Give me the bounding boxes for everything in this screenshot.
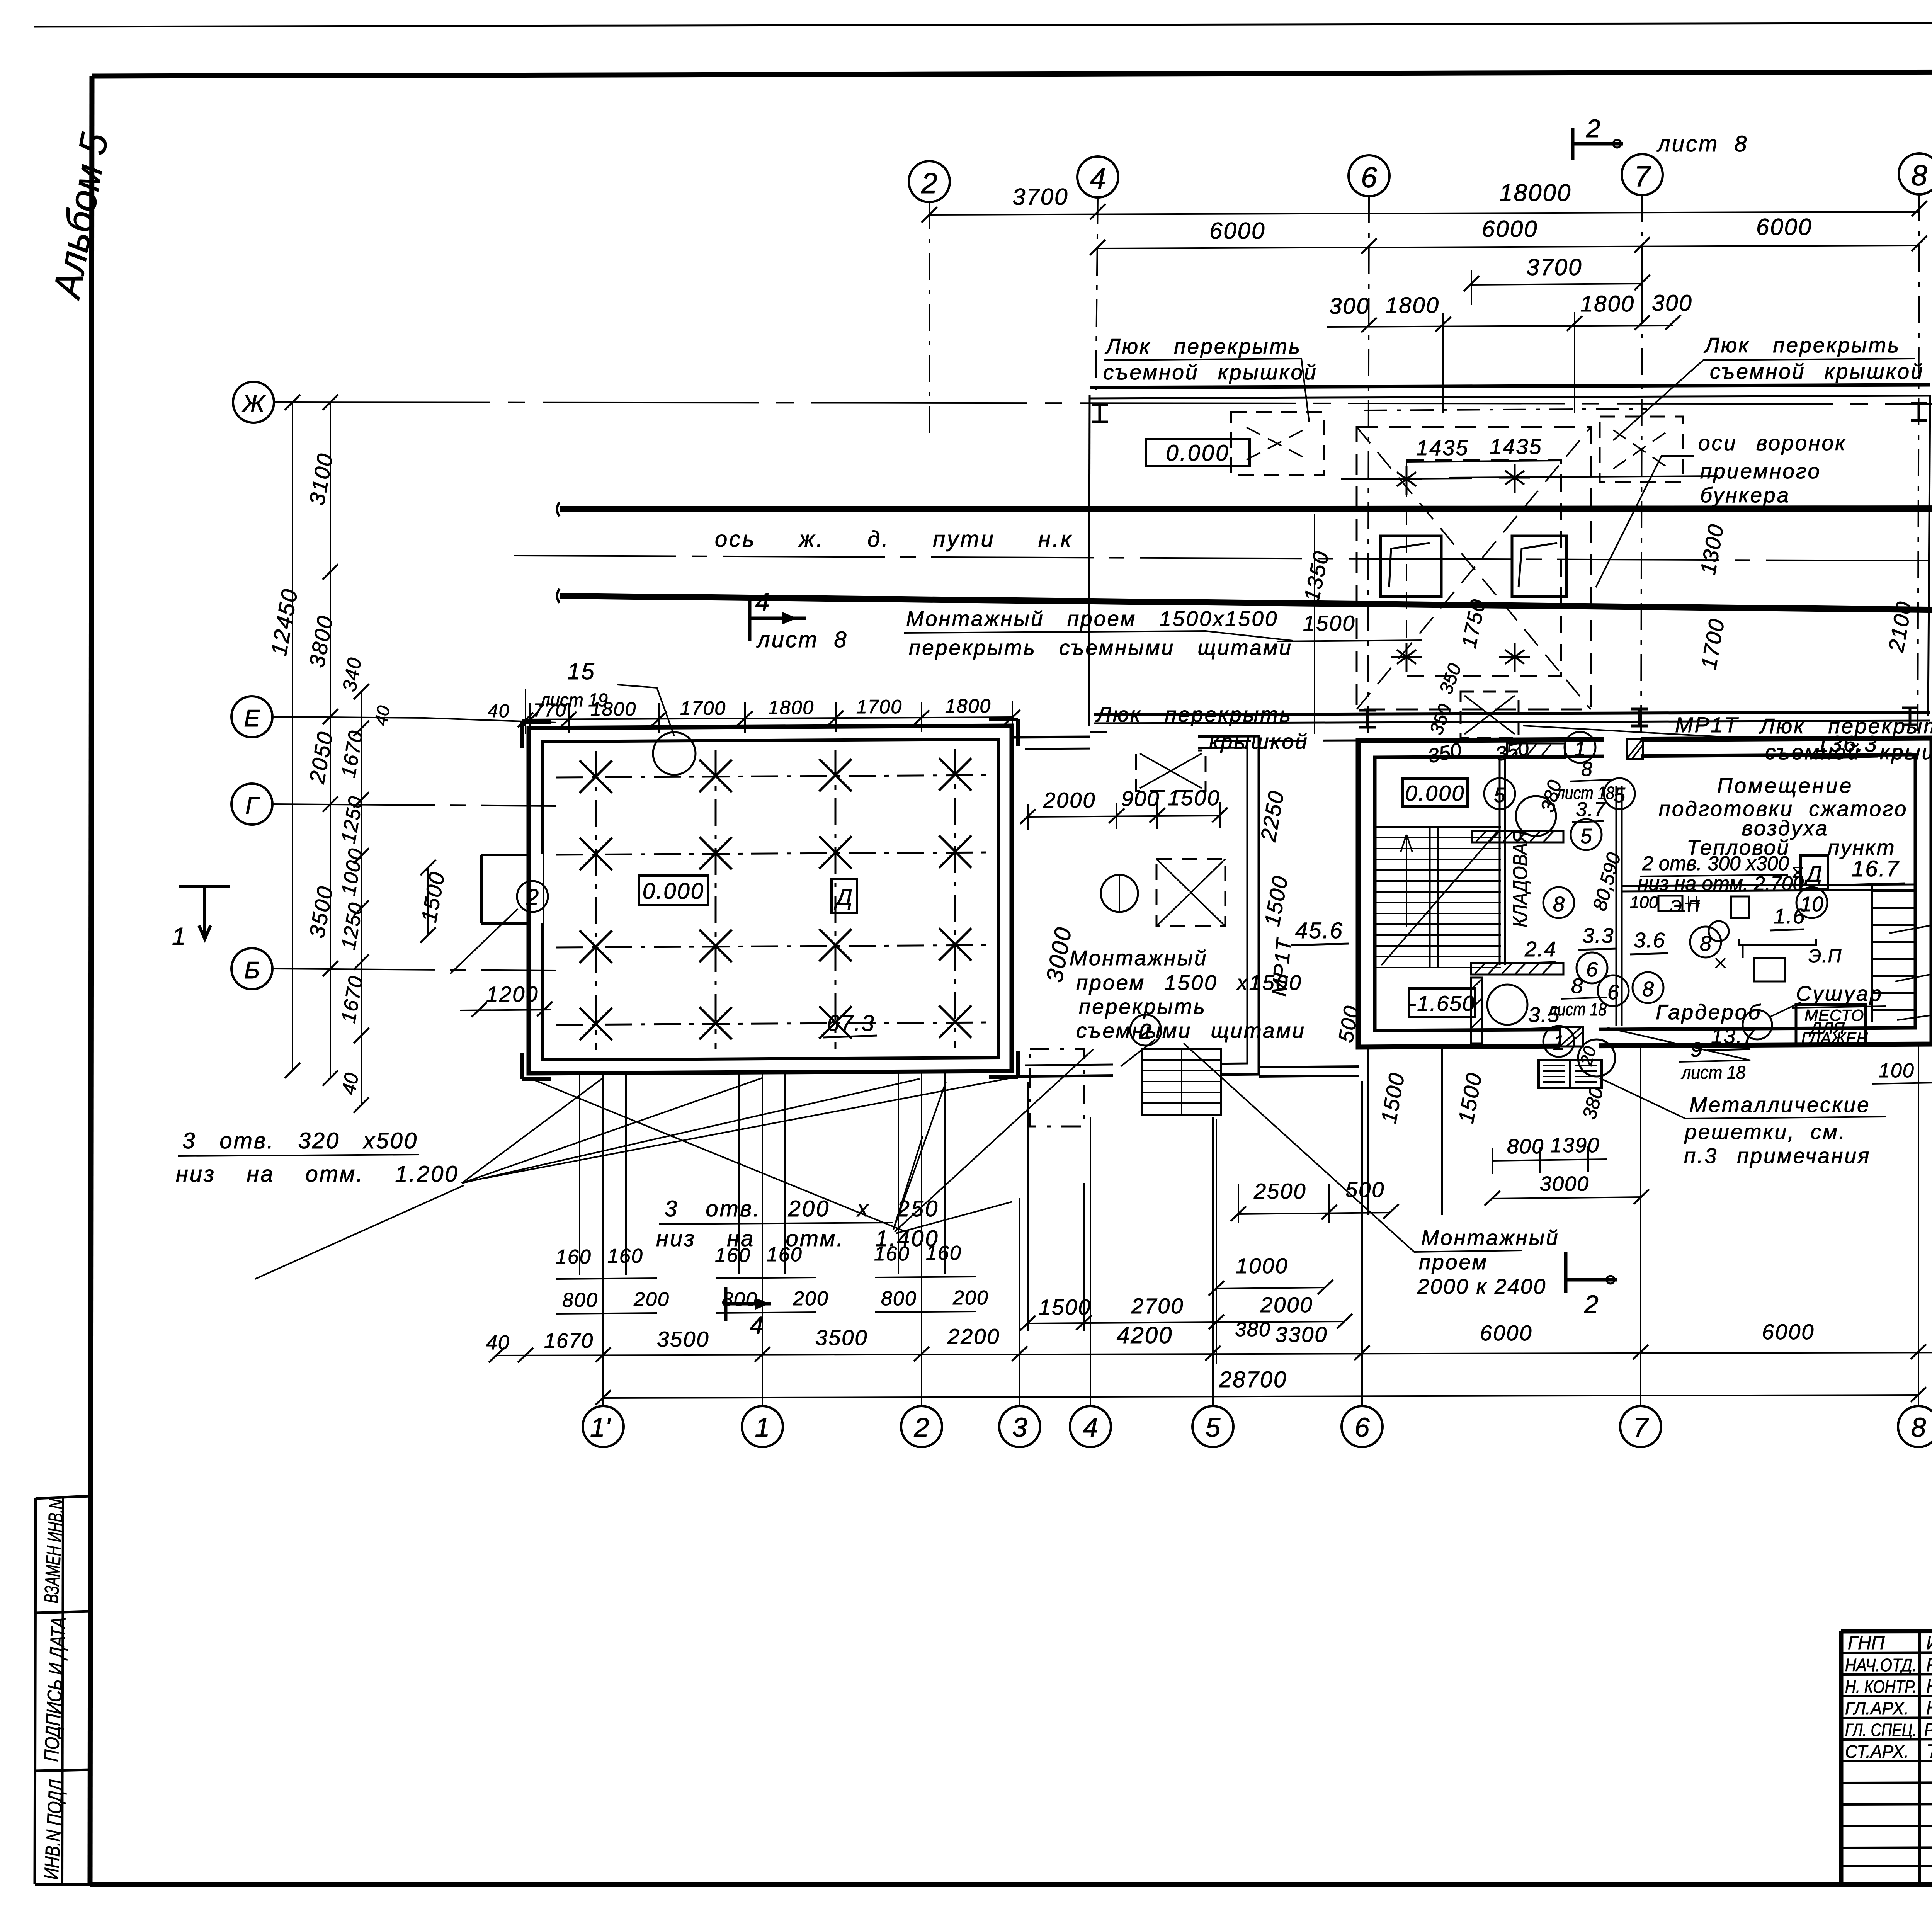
svg-text:2: 2 xyxy=(1584,1290,1599,1318)
I-beam south left xyxy=(1090,732,1107,749)
svg-text:низ на отм. 1.200: низ на отм. 1.200 xyxy=(176,1162,459,1187)
svg-text:Люк перекрыть: Люк перекрыть xyxy=(1759,714,1932,738)
svg-text:Монтажный проем 1500х1500: Монтажный проем 1500х1500 xyxy=(906,607,1279,631)
svg-text:6: 6 xyxy=(1607,981,1619,1004)
hall inner wall line xyxy=(543,739,998,1060)
svg-text:1435: 1435 xyxy=(1416,435,1469,460)
top dim row of hall xyxy=(522,717,1012,719)
gallery right post xyxy=(1928,395,1930,716)
svg-text:8: 8 xyxy=(1911,159,1927,192)
grid bubble 8 top xyxy=(1899,153,1932,194)
partition horizontal pom-garderob xyxy=(1622,884,1915,891)
svg-text:2000: 2000 xyxy=(1260,1293,1313,1317)
exterior stair xyxy=(1142,1049,1221,1115)
svg-text:6: 6 xyxy=(1586,958,1598,981)
svg-text:2 отв. 300 х300: 2 отв. 300 х300 xyxy=(1642,852,1789,875)
svg-text:770: 770 xyxy=(533,700,566,721)
svg-text:1000: 1000 xyxy=(1236,1253,1289,1278)
svg-text:160: 160 xyxy=(607,1245,643,1267)
svg-text:1: 1 xyxy=(172,922,186,950)
section mark 4 bottom xyxy=(726,1287,771,1321)
svg-text:6: 6 xyxy=(1355,1412,1370,1442)
funnel corner arrows xyxy=(580,758,971,1040)
svg-text:1: 1 xyxy=(755,1412,770,1442)
door swing circles xyxy=(1516,796,1556,836)
svg-text:СТ.АРХ.: СТ.АРХ. xyxy=(1845,1742,1909,1762)
bottom wall door gap xyxy=(1560,1025,1599,1049)
funnel mark top right xyxy=(1499,464,1530,493)
svg-text:300: 300 xyxy=(1329,294,1370,319)
svg-text:3 отв. 320 х500: 3 отв. 320 х500 xyxy=(182,1128,418,1153)
dim 2000 900 1500 xyxy=(1028,802,1221,830)
midroom luk dashed square xyxy=(1136,750,1206,791)
svg-text:ГНП: ГНП xyxy=(1848,1633,1885,1653)
svg-text:ГЛ. СПЕЦ.: ГЛ. СПЕЦ. xyxy=(1845,1720,1917,1740)
axis line 8 down xyxy=(1918,194,1919,738)
gallery south edge double line xyxy=(1094,712,1930,715)
svg-text:800: 800 xyxy=(562,1289,598,1311)
main bottom dim chain xyxy=(497,1352,1932,1355)
svg-text:-1.650: -1.650 xyxy=(1409,991,1475,1015)
svg-text:5: 5 xyxy=(1206,1412,1221,1442)
passage connector lines xyxy=(1259,1066,1359,1077)
luk dashed square right xyxy=(1600,417,1683,482)
left dim vertical chain xyxy=(330,402,331,1078)
svg-text:1670: 1670 xyxy=(544,1329,594,1352)
svg-text:4: 4 xyxy=(1083,1412,1098,1442)
svg-text:7: 7 xyxy=(1633,1412,1650,1442)
I-beam south right xyxy=(1902,708,1918,725)
dashed pad left of stair xyxy=(1030,1049,1084,1126)
svg-text:2: 2 xyxy=(1586,114,1600,143)
svg-text:28700: 28700 xyxy=(1219,1367,1287,1392)
svg-text:съемными щитами: съемными щитами xyxy=(1076,1019,1306,1043)
track axis dash line xyxy=(514,556,1932,561)
I-beam south mid1 xyxy=(1359,710,1376,727)
big cross diagonals under hall xyxy=(483,1078,1010,1233)
svg-text:Люк перекрыть: Люк перекрыть xyxy=(1105,334,1301,358)
mark D box right xyxy=(1801,855,1828,889)
funnel mark bottom right xyxy=(1499,643,1530,672)
svg-text:МР1Т: МР1Т xyxy=(1675,713,1739,737)
svg-text:Э.П: Э.П xyxy=(1808,946,1842,966)
grille symbol xyxy=(1539,1060,1602,1088)
svg-text:Г: Г xyxy=(245,793,260,819)
top wall door gap xyxy=(1604,735,1641,760)
svg-text:лист 8: лист 8 xyxy=(756,627,848,652)
svg-text:4: 4 xyxy=(755,587,770,616)
svg-text:Б: Б xyxy=(244,957,260,984)
svg-text:1390: 1390 xyxy=(1550,1134,1600,1157)
svg-text:2700: 2700 xyxy=(1131,1294,1184,1318)
svg-text:300: 300 xyxy=(1652,291,1693,316)
signature table column lines xyxy=(1918,1631,1921,1884)
mesto dlya glazhen box xyxy=(1796,1005,1866,1045)
svg-text:Люк перекрыть: Люк перекрыть xyxy=(1704,333,1900,357)
leader fan to 200x250 holes xyxy=(893,1049,1094,1233)
axis Zh dash-dot xyxy=(274,402,1932,404)
svg-text:6000: 6000 xyxy=(1762,1320,1815,1344)
funnel grid dash-dot verticals xyxy=(596,749,955,1050)
svg-text:ТУСОВА: ТУСОВА xyxy=(1926,1740,1932,1762)
svg-text:проем 1500 х1500: проем 1500 х1500 xyxy=(1076,971,1303,995)
axis B dash-dot xyxy=(272,969,556,971)
hatch circle symbol xyxy=(1101,875,1138,912)
svg-text:Люк перекрыть: Люк перекрыть xyxy=(1095,702,1292,726)
svg-text:4200: 4200 xyxy=(1117,1322,1173,1348)
funnel mark bottom left xyxy=(1391,643,1422,672)
svg-text:7: 7 xyxy=(1634,160,1651,192)
frame thick bottom xyxy=(90,1882,1932,1887)
rail 1 xyxy=(560,509,1932,509)
svg-text:6000: 6000 xyxy=(1480,1321,1533,1345)
column mark D box xyxy=(832,879,857,913)
section mark 2 bottom xyxy=(1566,1252,1617,1293)
svg-text:Металлические: Металлические xyxy=(1689,1093,1871,1117)
left margin stamp strip outer xyxy=(35,1496,90,1884)
grid bubble 2 top xyxy=(909,161,950,202)
bunker inner dashed rect xyxy=(1406,460,1561,676)
stair treads xyxy=(1375,827,1501,968)
svg-text:НОРМАНН: НОРМАНН xyxy=(1926,1675,1932,1697)
svg-text:Н. КОНТР.: Н. КОНТР. xyxy=(1845,1677,1917,1697)
svg-text:1: 1 xyxy=(1574,737,1586,760)
elevation box 0.000 right xyxy=(1403,779,1468,806)
svg-text:18000: 18000 xyxy=(1499,180,1571,206)
svg-text:1700: 1700 xyxy=(856,696,902,718)
left bubble G xyxy=(231,784,272,825)
svg-text:низ на отм. 2.700: низ на отм. 2.700 xyxy=(1638,872,1804,895)
svg-text:НОРМАНН: НОРМАНН xyxy=(1926,1697,1932,1719)
svg-text:оси воронок: оси воронок xyxy=(1698,431,1847,455)
svg-text:1435: 1435 xyxy=(1490,434,1543,459)
axis line 2 down xyxy=(929,202,930,433)
stair stringers xyxy=(1430,827,1438,968)
svg-text:100: 100 xyxy=(1879,1060,1915,1082)
dim verticals mid bottom xyxy=(1028,1049,1442,1364)
svg-text:2000 к 2400: 2000 к 2400 xyxy=(1417,1274,1546,1298)
funnel mark top left xyxy=(1391,466,1422,495)
door bubbles xyxy=(1484,778,1515,809)
dim ticks 160 under hall xyxy=(580,1073,945,1275)
svg-text:1': 1' xyxy=(590,1412,611,1442)
svg-text:800: 800 xyxy=(1507,1135,1544,1158)
hatched lintel top xyxy=(1507,743,1565,758)
left bubble E xyxy=(231,696,272,737)
svg-text:2200: 2200 xyxy=(947,1324,1000,1349)
midroom bottom opening gap xyxy=(1113,1061,1221,1080)
bunker dashed outline xyxy=(1357,427,1591,709)
svg-text:3300: 3300 xyxy=(1275,1322,1328,1347)
svg-text:100: 100 xyxy=(1630,893,1658,912)
svg-text:8: 8 xyxy=(1642,978,1654,1001)
left fine dim chain xyxy=(361,692,362,1105)
frame thick left xyxy=(90,76,92,1884)
svg-text:1800: 1800 xyxy=(945,695,991,717)
stair diagonal arrow xyxy=(1381,832,1497,965)
svg-text:1200: 1200 xyxy=(486,982,539,1006)
dim line 3700 mid xyxy=(1471,284,1642,285)
axis E dash-dot xyxy=(272,717,556,723)
svg-text:лист 8: лист 8 xyxy=(1656,131,1748,156)
I-beam top left xyxy=(1092,405,1108,422)
fixtures toilets xyxy=(1658,896,1682,911)
I-beam top right xyxy=(1911,403,1927,420)
svg-text:решетки, см.: решетки, см. xyxy=(1684,1120,1846,1144)
svg-text:45.6: 45.6 xyxy=(1295,918,1344,943)
elevation 0.000 box top xyxy=(1146,439,1250,466)
svg-text:2: 2 xyxy=(921,167,937,199)
bubble 2 at west door xyxy=(517,881,548,912)
svg-text:3000: 3000 xyxy=(1540,1172,1589,1196)
svg-text:500: 500 xyxy=(1345,1177,1385,1202)
svg-text:6000: 6000 xyxy=(1209,218,1265,244)
svg-text:0.000: 0.000 xyxy=(1166,440,1230,466)
kladovaya hatched bottom bar xyxy=(1471,963,1563,975)
svg-text:съемной крышкой: съемной крышкой xyxy=(1765,740,1932,764)
luk dashed square left xyxy=(1231,412,1324,475)
svg-text:16.7: 16.7 xyxy=(1852,856,1900,881)
svg-text:1800: 1800 xyxy=(768,697,814,718)
svg-text:Д: Д xyxy=(1804,862,1822,887)
svg-text:2: 2 xyxy=(526,885,539,910)
total dim 28700 xyxy=(603,1395,1918,1398)
svg-text:приемного: приемного xyxy=(1700,459,1821,483)
montage dashed square xyxy=(1156,859,1225,926)
frame thick top xyxy=(92,70,1932,76)
hall wall corner ticks xyxy=(522,719,1018,1079)
svg-text:Е: Е xyxy=(244,705,260,732)
hatched wall low left xyxy=(1471,978,1482,1043)
svg-text:3.6: 3.6 xyxy=(1634,928,1665,952)
svg-text:1500: 1500 xyxy=(1303,611,1356,635)
svg-text:40: 40 xyxy=(486,1332,510,1354)
svg-text:ГЛ.АРХ.: ГЛ.АРХ. xyxy=(1845,1698,1909,1718)
hopper square right xyxy=(1512,536,1566,597)
small dashed square center xyxy=(1461,692,1519,738)
grid stubs below hall xyxy=(603,1072,922,1406)
svg-text:Монтажный: Монтажный xyxy=(1070,946,1208,970)
svg-text:4: 4 xyxy=(750,1311,764,1339)
title block outer xyxy=(1841,1630,1932,1884)
gallery north edge double line xyxy=(1090,385,1930,388)
svg-text:40: 40 xyxy=(371,704,394,727)
svg-text:Монтажный: Монтажный xyxy=(1421,1226,1560,1250)
dim line 3700+18000 top xyxy=(929,212,1919,215)
bubble 2 south xyxy=(1130,1015,1161,1046)
svg-text:НАЧ.ОТД.: НАЧ.ОТД. xyxy=(1845,1655,1917,1675)
midroom walls double line xyxy=(1012,736,1259,1077)
svg-text:РЫБКИНА: РЫБКИНА xyxy=(1926,1654,1932,1675)
right block inner wall line xyxy=(1375,755,1915,1031)
signature table row lines xyxy=(1841,1652,1932,1653)
MR1T dashed line xyxy=(1106,739,1879,741)
right ladder rungs xyxy=(1871,885,1873,1022)
svg-text:3700: 3700 xyxy=(1012,184,1068,210)
hopper square left xyxy=(1381,536,1441,597)
svg-text:1800: 1800 xyxy=(1580,291,1635,316)
axis G dash-dot xyxy=(272,804,556,806)
svg-text:1700: 1700 xyxy=(680,697,726,719)
gallery left post xyxy=(1089,395,1090,726)
svg-text:2.4: 2.4 xyxy=(1524,937,1556,961)
svg-text:лист 18: лист 18 xyxy=(1548,999,1607,1019)
svg-text:2000: 2000 xyxy=(1043,788,1096,812)
svg-text:1500: 1500 xyxy=(1039,1295,1092,1319)
svg-text:Гардероб: Гардероб xyxy=(1656,1000,1762,1024)
dim 1435 1435 xyxy=(1406,461,1561,462)
svg-text:6: 6 xyxy=(1361,161,1377,194)
left margin strip row line 1 xyxy=(36,1611,90,1613)
elevation 0.000 box hall xyxy=(639,876,708,905)
svg-text:3500: 3500 xyxy=(657,1327,710,1351)
svg-text:3: 3 xyxy=(1012,1412,1027,1442)
svg-text:ось ж. д. пути н.к: ось ж. д. пути н.к xyxy=(715,527,1073,552)
dim line 6000x3 xyxy=(1098,245,1919,248)
hall west door opening xyxy=(481,855,529,923)
partition vertical corridor xyxy=(1616,786,1622,1026)
kladovaya hatched top bar xyxy=(1472,831,1563,842)
svg-text:бункера: бункера xyxy=(1700,483,1790,507)
gallery inner dash band xyxy=(1364,409,1647,410)
svg-text:5: 5 xyxy=(1580,825,1592,848)
svg-text:6000: 6000 xyxy=(1482,216,1538,242)
svg-text:Д: Д xyxy=(834,884,852,910)
midroom top opening gap xyxy=(1090,733,1198,752)
svg-text:КЛАДОВАЯ: КЛАДОВАЯ xyxy=(1509,831,1532,927)
rail 2 xyxy=(560,596,1932,611)
I-beam south mid2 xyxy=(1631,709,1648,726)
svg-text:8: 8 xyxy=(1553,893,1565,916)
svg-text:РАШЕВСКИЙ: РАШЕВСКИЙ xyxy=(1924,1719,1932,1740)
svg-text:перекрыть съемными щитами: перекрыть съемными щитами xyxy=(909,636,1293,660)
svg-text:160: 160 xyxy=(556,1246,592,1268)
svg-text:ГЛАЖЕН: ГЛАЖЕН xyxy=(1801,1030,1868,1047)
svg-text:2: 2 xyxy=(914,1412,929,1442)
svg-text:съемной крышкой: съемной крышкой xyxy=(1103,360,1318,384)
svg-text:8: 8 xyxy=(1911,1412,1926,1442)
svg-text:проем: проем xyxy=(1419,1250,1488,1274)
svg-text:3500: 3500 xyxy=(815,1325,868,1350)
bottom grid bubbles xyxy=(583,1406,624,1447)
svg-text:1800: 1800 xyxy=(1385,293,1440,318)
partition vertical stair-kladovaya xyxy=(1500,757,1505,965)
svg-text:67.3: 67.3 xyxy=(827,1011,875,1036)
left margin strip row line 2 xyxy=(35,1770,90,1771)
svg-text:200: 200 xyxy=(633,1288,670,1311)
left margin strip inner divider xyxy=(62,1497,63,1884)
svg-text:Ж: Ж xyxy=(241,391,266,417)
svg-text:4: 4 xyxy=(1090,162,1106,195)
axis line 4 down xyxy=(1096,197,1098,390)
section mark 1 left xyxy=(179,887,230,939)
svg-text:Помещение: Помещение xyxy=(1717,774,1854,798)
bunker X diagonals xyxy=(1357,427,1591,709)
svg-text:3.3: 3.3 xyxy=(1582,923,1614,947)
svg-text:0.000: 0.000 xyxy=(643,879,704,904)
svg-text:15: 15 xyxy=(567,658,595,684)
bottom door jamb hatched xyxy=(1560,1027,1583,1046)
svg-text:2: 2 xyxy=(1139,1019,1151,1043)
svg-text:40: 40 xyxy=(488,701,510,721)
voronka axis cross left xyxy=(1341,478,1472,479)
svg-text:съемной крышкой: съемной крышкой xyxy=(1710,359,1924,383)
funnel grid dash-dot horizontals xyxy=(556,775,989,1025)
dim 800 200 under hall xyxy=(556,1277,976,1279)
svg-text:8: 8 xyxy=(1571,974,1583,998)
left bubble Zh xyxy=(233,382,274,423)
elevation box -1.650 xyxy=(1409,988,1475,1017)
svg-text:1800: 1800 xyxy=(590,698,636,720)
svg-text:ИВАНОВА: ИВАНОВА xyxy=(1926,1632,1932,1653)
dim line 300 1800 1800 300 xyxy=(1327,325,1673,327)
svg-text:п.3 примечания: п.3 примечания xyxy=(1684,1144,1871,1168)
section mark 2 top xyxy=(1573,128,1623,160)
grid bubble 4 top xyxy=(1077,156,1118,197)
svg-text:1: 1 xyxy=(1553,1031,1565,1054)
left dim vertical total xyxy=(292,402,293,1070)
svg-text:200: 200 xyxy=(793,1287,829,1310)
svg-text:0.000: 0.000 xyxy=(1405,781,1465,805)
leader fan to 320x500 holes xyxy=(255,1078,920,1279)
svg-text:Сушуар: Сушуар xyxy=(1796,981,1883,1005)
left bubble B xyxy=(231,948,272,989)
top door jamb hatched xyxy=(1627,739,1643,759)
svg-text:1500: 1500 xyxy=(1168,786,1221,810)
svg-text:5: 5 xyxy=(1614,784,1626,807)
grid bubble 6 top xyxy=(1349,155,1389,196)
grid bubble 7 top xyxy=(1622,154,1663,195)
svg-text:5: 5 xyxy=(1494,784,1506,807)
svg-text:200: 200 xyxy=(952,1287,989,1309)
outer thin border top xyxy=(34,22,1932,27)
svg-text:10: 10 xyxy=(1800,893,1823,916)
section mark 4 left xyxy=(750,595,806,641)
axis line 7 down xyxy=(1641,195,1642,738)
svg-text:Э.П: Э.П xyxy=(1670,897,1700,916)
svg-text:лист 18: лист 18 xyxy=(1680,1063,1745,1083)
svg-text:6000: 6000 xyxy=(1756,214,1812,240)
svg-text:2500: 2500 xyxy=(1253,1179,1307,1203)
hall outer wall xyxy=(529,726,1012,1073)
voronka axis cross right xyxy=(1449,476,1718,478)
axis stubs to bottom bubbles xyxy=(1020,1046,1918,1405)
svg-text:800: 800 xyxy=(881,1287,917,1310)
axis line 6 down xyxy=(1368,196,1369,736)
svg-text:3700: 3700 xyxy=(1526,254,1582,280)
svg-text:40: 40 xyxy=(338,1071,363,1096)
svg-text:900: 900 xyxy=(1121,786,1160,811)
right block outer wall xyxy=(1358,738,1932,1047)
